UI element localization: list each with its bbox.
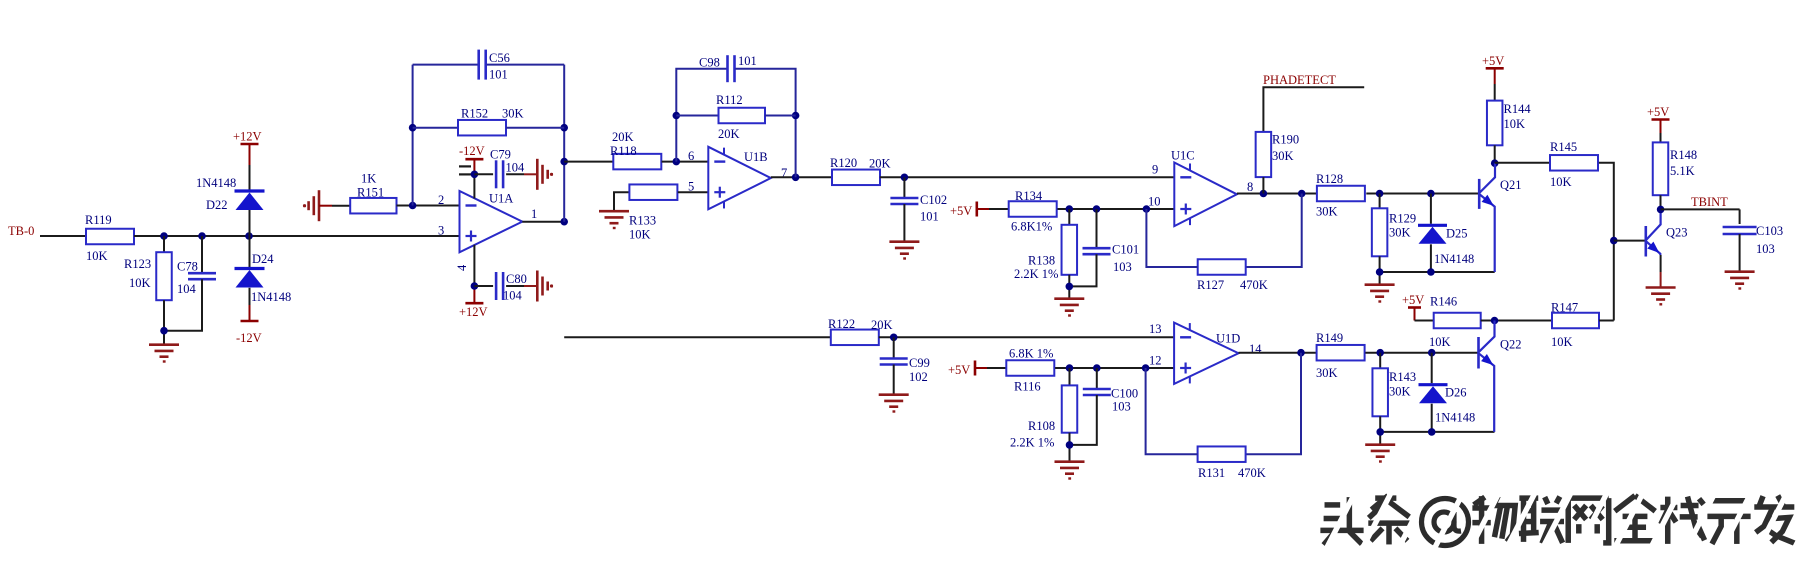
ground (sideways) C80 xyxy=(537,271,553,302)
wire xyxy=(506,285,537,287)
wire xyxy=(1380,272,1495,284)
wire xyxy=(880,176,1175,178)
watermark glyph 条 xyxy=(1368,496,1409,545)
svg-text:C80: C80 xyxy=(506,272,527,286)
svg-text:R129: R129 xyxy=(1389,212,1416,226)
pin 14 label xyxy=(1249,342,1262,356)
watermark glyph 物 xyxy=(1472,496,1515,544)
wire xyxy=(506,127,564,129)
svg-text:6.8K1%: 6.8K1% xyxy=(1011,220,1052,234)
resistor R116 6.8K 1% xyxy=(1006,347,1054,394)
svg-text:R190: R190 xyxy=(1272,133,1299,147)
svg-text:R122: R122 xyxy=(828,317,855,331)
power +5V (R146) xyxy=(1402,293,1424,308)
svg-text:8: 8 xyxy=(1247,180,1253,194)
wire xyxy=(903,177,905,198)
svg-text:R148: R148 xyxy=(1670,148,1697,162)
junction xyxy=(1657,206,1665,214)
svg-text:R149: R149 xyxy=(1316,331,1343,345)
wire xyxy=(1096,368,1098,389)
diode D26 1N4148 xyxy=(1419,385,1476,425)
ground xyxy=(149,345,179,362)
wire xyxy=(163,300,165,331)
svg-text:20K: 20K xyxy=(869,157,891,171)
wire xyxy=(676,115,718,117)
watermark glyph 联 xyxy=(1519,497,1564,544)
diode D25 1N4148 xyxy=(1418,225,1474,266)
svg-text:30K: 30K xyxy=(1316,205,1338,219)
wire xyxy=(1380,432,1494,444)
wire xyxy=(1070,395,1097,461)
resistor R190 30K xyxy=(1256,132,1299,177)
svg-text:Q22: Q22 xyxy=(1500,338,1522,352)
wire xyxy=(522,221,564,223)
transistor Q23 xyxy=(1646,209,1688,256)
resistor R123 xyxy=(124,252,172,300)
svg-text:30K: 30K xyxy=(1316,366,1338,380)
wire xyxy=(1069,368,1071,385)
junction xyxy=(471,282,479,290)
svg-text:C102: C102 xyxy=(920,193,947,207)
watermark glyph 网 xyxy=(1568,498,1608,543)
junction xyxy=(1066,205,1074,213)
svg-text:-12V: -12V xyxy=(236,331,262,345)
svg-text:5: 5 xyxy=(688,180,694,194)
junction xyxy=(1376,428,1384,436)
pin 5 label xyxy=(688,180,694,194)
pin 7 label xyxy=(781,166,787,180)
wire xyxy=(1068,209,1070,225)
junction xyxy=(1298,190,1306,198)
svg-text:2: 2 xyxy=(438,193,444,207)
ground (sideways) C79 xyxy=(537,159,553,190)
diode D22 1N4148 xyxy=(196,176,265,212)
junction xyxy=(1428,349,1436,357)
svg-text:470K: 470K xyxy=(1240,278,1268,292)
wire xyxy=(975,367,1006,369)
svg-text:C78: C78 xyxy=(177,260,198,274)
capacitor C80 104 xyxy=(496,272,527,303)
junction xyxy=(409,124,417,132)
resistor R119 xyxy=(85,213,134,263)
wire xyxy=(163,236,165,252)
svg-text:1N4148: 1N4148 xyxy=(196,176,236,190)
svg-text:R116: R116 xyxy=(1014,380,1041,394)
wire xyxy=(1379,416,1381,432)
resistor R127 470K xyxy=(1197,259,1268,292)
wire xyxy=(1365,352,1477,354)
wire xyxy=(676,69,726,162)
wire xyxy=(1055,367,1174,369)
wire xyxy=(765,115,796,117)
ground at R133 xyxy=(599,192,629,228)
wire xyxy=(1146,209,1197,267)
svg-text:2.2K 1%: 2.2K 1% xyxy=(1014,267,1058,281)
svg-text:30K: 30K xyxy=(1389,385,1411,399)
wire xyxy=(1263,87,1364,132)
svg-text:10K: 10K xyxy=(1504,117,1526,131)
svg-text:C99: C99 xyxy=(909,356,930,370)
svg-text:R108: R108 xyxy=(1028,419,1055,433)
junction xyxy=(1066,364,1074,372)
resistor R133 10K xyxy=(629,184,677,241)
svg-text:U1D: U1D xyxy=(1216,332,1240,346)
power -12V (U1A) xyxy=(459,144,485,159)
svg-text:+12V: +12V xyxy=(459,305,488,319)
junction xyxy=(245,232,253,240)
svg-text:10K: 10K xyxy=(1550,175,1572,189)
wire xyxy=(134,235,460,237)
junction xyxy=(1260,190,1268,198)
resistor R144 10K xyxy=(1487,101,1531,146)
svg-text:12: 12 xyxy=(1149,354,1162,368)
resistor R143 30K xyxy=(1372,368,1416,416)
svg-text:+5V: +5V xyxy=(1402,293,1424,307)
wire xyxy=(1058,208,1175,210)
resistor R138 2.2K 1% xyxy=(1014,225,1077,281)
svg-text:+5V: +5V xyxy=(950,204,972,218)
wire xyxy=(662,161,709,163)
capacitor C102 101 xyxy=(890,193,947,224)
capacitor C99 102 xyxy=(880,356,930,384)
ground at R143 xyxy=(1365,445,1395,462)
wire xyxy=(1246,353,1301,455)
svg-text:C56: C56 xyxy=(489,51,510,65)
ground at R129 xyxy=(1365,285,1395,302)
svg-text:104: 104 xyxy=(506,161,526,175)
junction xyxy=(198,232,206,240)
svg-text:C100: C100 xyxy=(1111,387,1138,401)
ground at C103 xyxy=(1725,272,1755,289)
power +5V (R134) xyxy=(950,202,977,219)
svg-text:R134: R134 xyxy=(1015,189,1043,203)
svg-text:20K: 20K xyxy=(718,127,740,141)
junction xyxy=(1093,364,1101,372)
power +5V (R116) xyxy=(948,361,975,378)
junction xyxy=(1376,349,1384,357)
svg-text:9: 9 xyxy=(1152,163,1158,177)
transistor Q22 xyxy=(1479,321,1522,432)
wire xyxy=(1481,320,1552,322)
junction xyxy=(1376,190,1384,198)
svg-text:13: 13 xyxy=(1149,322,1162,336)
watermark glyph 发 xyxy=(1754,496,1795,544)
pin 1 label xyxy=(531,207,537,221)
wire xyxy=(1599,163,1614,321)
junction xyxy=(1297,349,1305,357)
watermark glyph 开 xyxy=(1707,501,1750,544)
wire xyxy=(893,337,895,358)
svg-text:R133: R133 xyxy=(629,214,656,228)
wire xyxy=(1379,256,1381,272)
svg-text:U1A: U1A xyxy=(489,192,513,206)
svg-text:R120: R120 xyxy=(830,156,857,170)
junction xyxy=(160,232,168,240)
junction xyxy=(1491,317,1499,325)
wire xyxy=(1262,177,1264,193)
wire xyxy=(1366,193,1478,195)
wire xyxy=(1660,255,1662,288)
svg-text:6: 6 xyxy=(688,149,694,163)
junction xyxy=(1142,364,1150,372)
svg-text:R127: R127 xyxy=(1197,278,1224,292)
junction xyxy=(409,202,417,210)
wire xyxy=(1739,234,1741,271)
svg-text:R128: R128 xyxy=(1316,172,1343,186)
wire xyxy=(473,159,475,198)
svg-text:R131: R131 xyxy=(1198,466,1225,480)
svg-text:104: 104 xyxy=(177,282,197,296)
svg-text:R152: R152 xyxy=(461,107,488,121)
wire xyxy=(1096,209,1098,248)
svg-text:-12V: -12V xyxy=(459,144,485,158)
resistor R147 10K xyxy=(1551,301,1599,350)
svg-text:PHADETECT: PHADETECT xyxy=(1263,73,1336,87)
capacitor C103 103 xyxy=(1723,224,1783,256)
pin 11 label (sideways) xyxy=(459,166,471,174)
wire xyxy=(249,210,251,236)
junction xyxy=(560,218,568,226)
pin 6 label xyxy=(688,149,694,163)
capacitor C98 101 xyxy=(699,54,757,82)
watermark white hatching xyxy=(1322,489,1804,557)
svg-text:14: 14 xyxy=(1249,342,1262,356)
junction xyxy=(560,124,568,132)
svg-text:C98: C98 xyxy=(699,56,720,70)
svg-text:+5V: +5V xyxy=(1482,54,1504,68)
junction xyxy=(890,334,898,342)
pin 12 label xyxy=(1149,354,1162,368)
wire xyxy=(1431,404,1433,432)
svg-text:R118: R118 xyxy=(610,144,637,158)
wire xyxy=(735,69,795,178)
junction xyxy=(673,158,681,166)
svg-text:TB-0: TB-0 xyxy=(8,224,34,238)
wire xyxy=(1246,194,1302,268)
svg-text:+12V: +12V xyxy=(233,130,262,144)
junction xyxy=(1491,159,1499,167)
svg-text:R123: R123 xyxy=(124,257,151,271)
wire xyxy=(879,336,1174,338)
junction xyxy=(1428,428,1436,436)
pin 3 label xyxy=(438,224,444,238)
diode D24 1N4148 xyxy=(235,252,292,304)
ground at R138 xyxy=(1054,299,1084,316)
wire xyxy=(1660,195,1662,209)
pin 10 label xyxy=(1148,195,1161,209)
resistor R128 30K xyxy=(1316,172,1365,219)
svg-text:D24: D24 xyxy=(252,252,274,266)
svg-text:102: 102 xyxy=(909,370,928,384)
watermark glyph 全 xyxy=(1614,496,1655,541)
pin 2 label xyxy=(438,193,444,207)
svg-text:10K: 10K xyxy=(129,276,151,290)
pin 13 label xyxy=(1149,322,1162,336)
wire xyxy=(413,65,478,206)
watermark glyph 头 xyxy=(1320,497,1363,545)
wire xyxy=(319,205,350,207)
ground at C99 xyxy=(879,395,909,412)
net label PHADETECT xyxy=(1263,73,1336,87)
junction xyxy=(1066,441,1074,449)
svg-text:101: 101 xyxy=(489,68,508,82)
junction xyxy=(1066,283,1074,291)
svg-text:D22: D22 xyxy=(206,198,228,212)
junction xyxy=(792,174,800,182)
wire xyxy=(201,236,203,273)
svg-text:10K: 10K xyxy=(86,249,108,263)
op-amp U1A xyxy=(460,191,523,252)
junction xyxy=(1427,268,1435,276)
op-amp U1B xyxy=(708,147,771,210)
wire xyxy=(474,285,493,287)
wire xyxy=(1614,240,1645,242)
wire xyxy=(487,64,565,66)
wire xyxy=(249,144,251,190)
wire xyxy=(678,191,709,193)
wire xyxy=(1379,353,1381,369)
resistor R129 30K xyxy=(1372,208,1416,256)
capacitor C100 103 xyxy=(1083,387,1138,414)
svg-text:C101: C101 xyxy=(1112,243,1139,257)
op-amp U1C xyxy=(1171,149,1237,227)
ground (sideways) at R151 xyxy=(303,190,319,221)
svg-text:R151: R151 xyxy=(357,186,384,200)
ground at R108 xyxy=(1055,462,1085,479)
junction xyxy=(1427,190,1435,198)
svg-text:10K: 10K xyxy=(1429,335,1451,349)
resistor R131 470K xyxy=(1198,446,1266,480)
junction xyxy=(1143,205,1151,213)
junction xyxy=(160,327,168,335)
svg-text:20K: 20K xyxy=(612,130,634,144)
transistor Q21 xyxy=(1479,163,1521,272)
pin 8 label xyxy=(1247,180,1253,194)
resistor R118 20K xyxy=(610,130,661,169)
resistor R151 1K xyxy=(350,172,396,214)
wire xyxy=(1430,194,1432,224)
wire xyxy=(506,173,537,175)
wire xyxy=(413,127,458,129)
svg-text:2.2K 1%: 2.2K 1% xyxy=(1010,436,1054,450)
wire xyxy=(564,161,613,163)
wire xyxy=(1237,193,1317,195)
svg-text:103: 103 xyxy=(1756,242,1775,256)
wire xyxy=(1069,433,1071,445)
svg-text:6.8K 1%: 6.8K 1% xyxy=(1009,347,1053,361)
net label TBINT xyxy=(1691,195,1728,209)
wire xyxy=(1495,162,1550,164)
power +5V (R144) xyxy=(1482,54,1504,68)
junction xyxy=(1610,237,1618,245)
ground at C102 xyxy=(889,242,919,259)
resistor R152 30K xyxy=(458,107,524,136)
svg-text:1: 1 xyxy=(531,207,537,221)
svg-text:103: 103 xyxy=(1112,400,1131,414)
wire xyxy=(903,204,905,241)
wire xyxy=(249,236,251,268)
svg-text:C103: C103 xyxy=(1756,224,1783,238)
wire xyxy=(1661,208,1740,210)
pin 4 label (sideways) xyxy=(455,264,469,271)
wire xyxy=(1146,368,1198,454)
svg-text:30K: 30K xyxy=(1389,226,1411,240)
svg-text:1N4148: 1N4148 xyxy=(1434,252,1474,266)
svg-text:TBINT: TBINT xyxy=(1691,195,1728,209)
svg-text:D25: D25 xyxy=(1446,227,1468,241)
capacitor C56 101 xyxy=(479,50,510,82)
svg-text:R146: R146 xyxy=(1430,295,1457,309)
svg-text:U1C: U1C xyxy=(1171,149,1195,163)
svg-text:1K: 1K xyxy=(361,172,376,186)
svg-text:20K: 20K xyxy=(871,318,893,332)
wire xyxy=(977,208,1009,210)
wire xyxy=(164,279,202,343)
svg-text:C79: C79 xyxy=(490,148,511,162)
resistor R146 10K xyxy=(1429,295,1481,350)
svg-text:10: 10 xyxy=(1148,195,1161,209)
wire xyxy=(1415,308,1434,321)
wire xyxy=(249,288,251,321)
wire xyxy=(1069,254,1096,297)
junction xyxy=(471,171,479,179)
svg-text:10K: 10K xyxy=(1551,335,1573,349)
power -12V xyxy=(236,321,262,345)
svg-text:103: 103 xyxy=(1113,260,1132,274)
svg-text:30K: 30K xyxy=(1272,149,1294,163)
svg-text:1N4148: 1N4148 xyxy=(1435,411,1475,425)
wire xyxy=(1430,244,1432,272)
junction xyxy=(1093,205,1101,213)
power +12V xyxy=(233,130,262,145)
resistor R148 5.1K xyxy=(1653,142,1697,195)
resistor R149 30K xyxy=(1316,331,1365,380)
resistor R145 10K xyxy=(1550,140,1598,189)
wire xyxy=(1739,209,1741,224)
svg-text:R143: R143 xyxy=(1389,370,1416,384)
svg-text:Q21: Q21 xyxy=(1500,178,1522,192)
svg-text:10K: 10K xyxy=(629,228,651,242)
wire xyxy=(473,245,475,303)
ground at Q23 xyxy=(1646,288,1676,305)
watermark glyph 栈 xyxy=(1660,497,1704,544)
wire xyxy=(40,235,86,237)
resistor R134 6.8K1% xyxy=(1009,189,1057,234)
svg-text:104: 104 xyxy=(503,289,523,303)
svg-text:R138: R138 xyxy=(1028,254,1055,268)
svg-text:R145: R145 xyxy=(1550,140,1577,154)
svg-text:4: 4 xyxy=(455,264,469,271)
wire xyxy=(1068,275,1070,287)
svg-text:5.1K: 5.1K xyxy=(1670,164,1695,178)
power +12V (U1A) xyxy=(459,303,488,319)
resistor R122 20K xyxy=(828,317,893,345)
svg-text:Q23: Q23 xyxy=(1666,226,1688,240)
svg-text:+5V: +5V xyxy=(948,363,970,377)
wire xyxy=(1379,194,1381,209)
resistor R112 20K xyxy=(716,93,765,141)
junction xyxy=(673,112,681,120)
wire xyxy=(1660,120,1662,143)
svg-text:101: 101 xyxy=(738,54,757,68)
svg-text:R112: R112 xyxy=(716,93,743,107)
wire xyxy=(1599,320,1614,322)
wire xyxy=(564,336,831,338)
op-amp U1D xyxy=(1174,323,1240,384)
svg-text:3: 3 xyxy=(438,224,444,238)
pin 9 label xyxy=(1152,163,1158,177)
resistor R120 20K xyxy=(830,156,891,185)
